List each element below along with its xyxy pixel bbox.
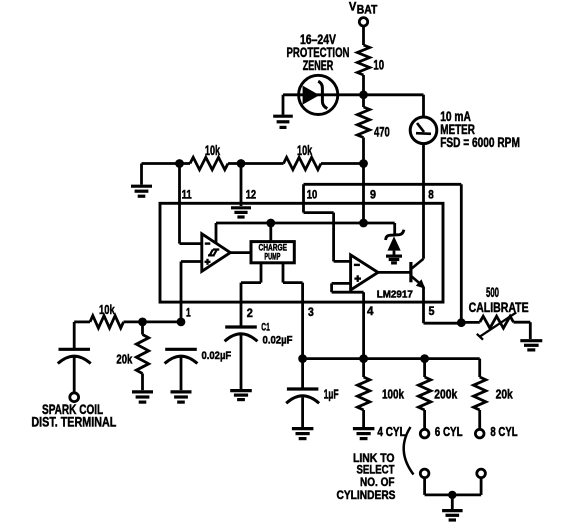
svg-text:4 CYL: 4 CYL	[377, 425, 406, 439]
svg-text:20k: 20k	[116, 352, 133, 367]
svg-text:DIST. TERMINAL: DIST. TERMINAL	[31, 414, 116, 430]
svg-text:8 CYL: 8 CYL	[490, 425, 517, 439]
svg-text:2: 2	[247, 308, 253, 320]
svg-text:0.02µF: 0.02µF	[202, 350, 232, 362]
svg-text:10k: 10k	[99, 302, 115, 317]
svg-text:BAT: BAT	[357, 5, 378, 17]
svg-text:5: 5	[429, 306, 436, 318]
svg-text:500: 500	[486, 285, 499, 300]
svg-text:20k: 20k	[496, 386, 514, 401]
svg-text:470: 470	[374, 125, 390, 140]
svg-text:10k: 10k	[297, 143, 313, 158]
svg-text:10: 10	[373, 58, 384, 73]
svg-text:NO. OF: NO. OF	[360, 475, 395, 489]
svg-text:6 CYL: 6 CYL	[435, 425, 463, 439]
svg-text:1: 1	[186, 308, 191, 320]
svg-text:8: 8	[428, 189, 434, 201]
svg-text:CALIBRATE: CALIBRATE	[469, 300, 529, 315]
svg-text:10: 10	[307, 189, 318, 201]
svg-text:12: 12	[246, 190, 256, 202]
svg-text:3: 3	[308, 307, 314, 319]
svg-text:0.02µF: 0.02µF	[263, 335, 293, 347]
svg-text:200k: 200k	[434, 386, 458, 401]
svg-text:LM2917: LM2917	[377, 289, 414, 300]
svg-text:CYLINDERS: CYLINDERS	[337, 488, 396, 502]
svg-text:10k: 10k	[205, 143, 221, 158]
svg-text:PUMP: PUMP	[264, 251, 280, 261]
svg-text:9: 9	[370, 189, 376, 201]
svg-text:ZENER: ZENER	[303, 58, 334, 73]
svg-text:11: 11	[182, 189, 193, 201]
svg-text:1µF: 1µF	[324, 386, 339, 401]
svg-text:100k: 100k	[382, 386, 405, 401]
svg-text:FSD = 6000 RPM: FSD = 6000 RPM	[440, 135, 520, 150]
svg-text:V: V	[349, 0, 357, 14]
svg-text:C1: C1	[261, 322, 270, 334]
svg-text:4: 4	[367, 306, 374, 318]
